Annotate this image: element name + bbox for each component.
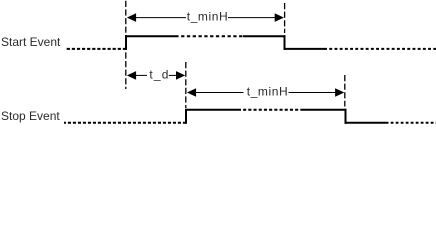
wire: Start falling edge (284, 35, 286, 50)
dimension arrow t_d (delay between Start and Stop rising edges) (127, 71, 185, 80)
dimension arrow t_minH (bottom, Stop pulse width) (187, 88, 344, 97)
node label Stop Event (1, 109, 60, 123)
svg-text:Stop Event: Stop Event (1, 109, 60, 123)
svg-text:Start Event: Start Event (1, 35, 61, 49)
dimension arrow t_minH (top, Start pulse width) (127, 13, 284, 22)
wire: Stop high level solid segment 1 (185, 109, 241, 111)
wire: Stop high level dashed middle segment (241, 109, 303, 111)
svg-text:t_d: t_d (149, 67, 169, 81)
marker line at Start rising edge (125, 1, 127, 89)
wire: Stop low level dashed (right) (389, 122, 436, 124)
wire: Stop rising edge (185, 109, 187, 124)
wire: Start low level dashed (left of rising edge) (66, 48, 126, 50)
value label t_d (149, 67, 169, 81)
wire: Start high level dashed middle segment (179, 35, 243, 37)
value label t_minH (top) (187, 10, 229, 24)
wire: Stop falling edge (345, 109, 347, 124)
marker line at Stop rising edge (185, 62, 187, 108)
svg-text:t_minH: t_minH (247, 85, 289, 99)
wire: Start high level solid segment 2 (243, 35, 286, 37)
node label Start Event (1, 35, 61, 49)
marker line at Stop falling edge (344, 75, 346, 107)
wire: Start low level solid after fall (284, 48, 328, 50)
marker line at Start falling edge (284, 3, 286, 33)
wire: Start rising edge (125, 35, 127, 50)
wire: Start low level dashed (right) (327, 48, 436, 50)
wire: Stop low level dashed (left of rising edge) (64, 122, 186, 124)
wire: Stop low level solid after fall (345, 122, 389, 124)
wire: Start high level solid segment 1 (125, 35, 179, 37)
wire: Stop high level solid segment 2 (303, 109, 347, 111)
svg-text:t_minH: t_minH (187, 10, 229, 24)
value label t_minH (bottom) (247, 85, 289, 99)
